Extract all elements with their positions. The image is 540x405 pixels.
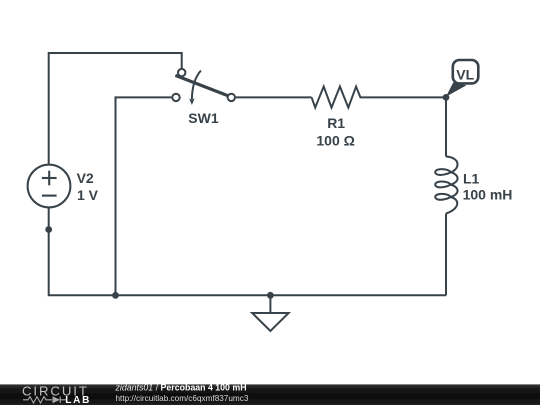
svg-text:R1: R1 xyxy=(327,115,345,131)
svg-text:VL: VL xyxy=(456,66,474,82)
svg-text:SW1: SW1 xyxy=(188,110,219,126)
svg-text:zidants01 / Percobaan 4 100 mH: zidants01 / Percobaan 4 100 mH xyxy=(115,383,247,393)
svg-text:V2: V2 xyxy=(77,170,94,186)
svg-text:100 mH: 100 mH xyxy=(463,187,513,203)
svg-text:http://circuitlab.com/c6qxmf83: http://circuitlab.com/c6qxmf837umc3 xyxy=(116,394,249,403)
svg-text:LAB: LAB xyxy=(65,395,91,405)
svg-text:1 V: 1 V xyxy=(77,187,99,203)
svg-text:100 Ω: 100 Ω xyxy=(316,132,354,148)
svg-text:L1: L1 xyxy=(463,170,480,186)
